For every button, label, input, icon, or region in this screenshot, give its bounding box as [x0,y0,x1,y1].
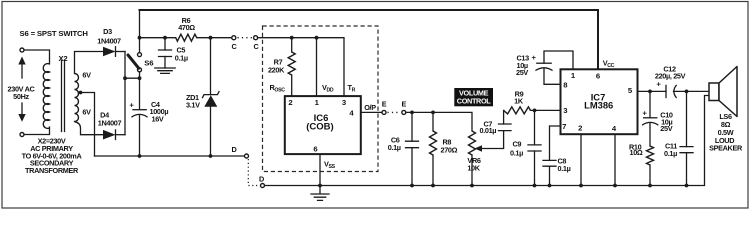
svg-text:X2: X2 [58,54,67,63]
capacitor C10 [643,91,658,146]
wire R9 to pin3 [531,109,561,111]
speaker LS6 [709,67,737,117]
wire signal line E to VR6 [406,112,472,131]
svg-text:470Ω: 470Ω [178,23,195,32]
wire secondary top to D3 anode [75,52,104,74]
svg-text:1K: 1K [514,96,524,105]
capacitor C7 [499,110,512,130]
node D connector right [261,184,265,188]
svg-text:220µ, 25V: 220µ, 25V [655,72,686,81]
svg-text:E: E [402,100,407,109]
svg-text:0.1µ: 0.1µ [175,54,188,63]
svg-text:6V: 6V [82,108,91,117]
node E connector left [382,110,386,114]
capacitor C12 [666,85,676,97]
svg-text:E: E [382,100,387,109]
wire AC bottom terminal to primary [24,127,50,135]
svg-text:CONTROL: CONTROL [457,97,492,106]
svg-text:3: 3 [342,98,346,107]
wire E dotted link [388,111,401,113]
svg-text:S6: S6 [144,59,153,68]
transformer X2 primary winding [43,64,49,129]
node L2 AC terminal bottom [18,103,25,137]
svg-text:0.1µ: 0.1µ [664,149,677,158]
wire C to IC6 top pins [258,38,344,96]
svg-text:2: 2 [578,124,582,133]
dashed box IC6 module [263,26,379,172]
wire AC top terminal to primary [24,50,50,64]
potentiometer VR6 [469,131,504,188]
transformer X2 secondary winding [75,74,79,122]
wire cathode junction to switch bottom [125,77,140,79]
node ZD1 tap [209,36,213,40]
wire regulated node line [140,37,232,39]
resistor R8 [430,112,437,187]
capacitor C4 [132,110,147,156]
svg-text:D3: D3 [103,27,112,36]
svg-text:10Ω: 10Ω [630,148,643,157]
svg-text:1N4007: 1N4007 [97,37,121,46]
svg-text:D: D [232,145,237,154]
capacitor C13 [536,63,561,84]
capacitor C6 [406,112,419,187]
node C connector left [232,36,236,40]
svg-text:0.01µ: 0.01µ [480,126,497,135]
wire VSS lead [319,154,321,185]
wire pin2 to ground rail [580,134,582,185]
svg-text:220K: 220K [268,65,285,74]
capacitor C11 [680,91,693,187]
op-amp U1 IC6 (COB) box [285,96,361,154]
wire center tap to left rail [81,93,95,157]
svg-text:6: 6 [313,145,317,154]
node cathode junction [123,76,127,80]
svg-text:2: 2 [288,98,292,107]
svg-text:16V: 16V [152,114,164,123]
node C connector right [254,36,258,40]
svg-text:(COB): (COB) [306,122,333,133]
op-amp U2 IC7 LM386 box [561,69,638,134]
resistor R10 [647,146,654,187]
svg-text:+: + [129,100,134,109]
svg-text:0.1µ: 0.1µ [388,143,401,152]
label C10 10u 25V [660,111,673,134]
svg-text:50Hz: 50Hz [13,92,29,101]
node Vcc branch [138,36,142,40]
label C13 + 10u 25V [516,53,537,77]
label LS6 8ohm 0.5W LOUD SPEAKER [709,112,743,153]
wire pin1 to C13 [544,51,573,69]
node D connector left [245,154,249,158]
wire left ground rail [95,155,245,157]
label C6 0.1u [388,135,401,152]
transformer X2 core [62,61,65,132]
label C4 1000u 16V [150,100,169,123]
svg-text:10K: 10K [467,163,480,172]
svg-text:C9: C9 [513,140,522,149]
switch S6 [128,53,142,72]
svg-text:D: D [259,175,264,184]
svg-text:1N4007: 1N4007 [98,119,122,128]
ground (VSS) [311,186,329,201]
capacitor C5 [159,38,172,68]
wire top rail [140,10,599,69]
label C5 0.1u [175,46,188,63]
svg-text:O/P: O/P [364,103,376,112]
svg-text:SPEAKER: SPEAKER [709,144,743,153]
zener ZD1 [203,38,220,156]
svg-text:S6 = SPST SWITCH: S6 = SPST SWITCH [20,29,89,38]
wire C dotted link [238,37,253,39]
node E connector right [402,110,406,114]
node C5 tap [163,36,167,40]
node center tap [79,91,83,95]
wire pin5 output [638,90,710,92]
label VOLUME CONTROL [454,88,493,106]
svg-text:+: + [532,53,537,62]
svg-text:3.1V: 3.1V [186,101,200,110]
diode D3 [103,47,125,57]
label C12 220u 25V [655,64,686,80]
wire switch bottom to C4 and junction [139,72,141,110]
resistor R6 [176,34,197,41]
wire switch top to top rail [139,10,141,53]
wire pin4 to ground rail [614,134,616,185]
resistor R9 [504,107,531,114]
svg-text:0.1µ: 0.1µ [558,164,571,173]
capacitor C9 [528,110,541,187]
svg-text:0.1µ: 0.1µ [510,149,523,158]
wire secondary bottom to D4 anode [75,122,104,135]
svg-text:25V: 25V [660,124,672,133]
ground (C5) [155,68,175,73]
label 230V AC 50Hz [8,85,36,101]
svg-text:7: 7 [562,122,566,131]
node L1 AC terminal top [18,48,25,78]
svg-text:6: 6 [596,72,600,81]
svg-text:TRANSFORMER: TRANSFORMER [25,166,79,175]
capacitor C8 [543,160,556,187]
label X2 transformer description [22,137,83,175]
wire pin1 lead [316,38,318,96]
wire pin4 output [361,111,382,113]
wire main bottom rail [265,96,710,186]
diode D4 [103,130,125,140]
wire pin7 to C8 [550,126,561,160]
svg-text:+: + [642,109,647,118]
svg-text:+: + [656,79,661,88]
resistor R7 [288,38,295,96]
svg-text:25V: 25V [516,68,528,77]
wire cathode join vertical [124,52,126,135]
svg-text:6V: 6V [82,70,91,79]
svg-text:270Ω: 270Ω [441,145,458,154]
svg-text:3: 3 [563,106,567,115]
svg-text:LM386: LM386 [584,100,613,111]
wire D dotted link [248,159,259,186]
